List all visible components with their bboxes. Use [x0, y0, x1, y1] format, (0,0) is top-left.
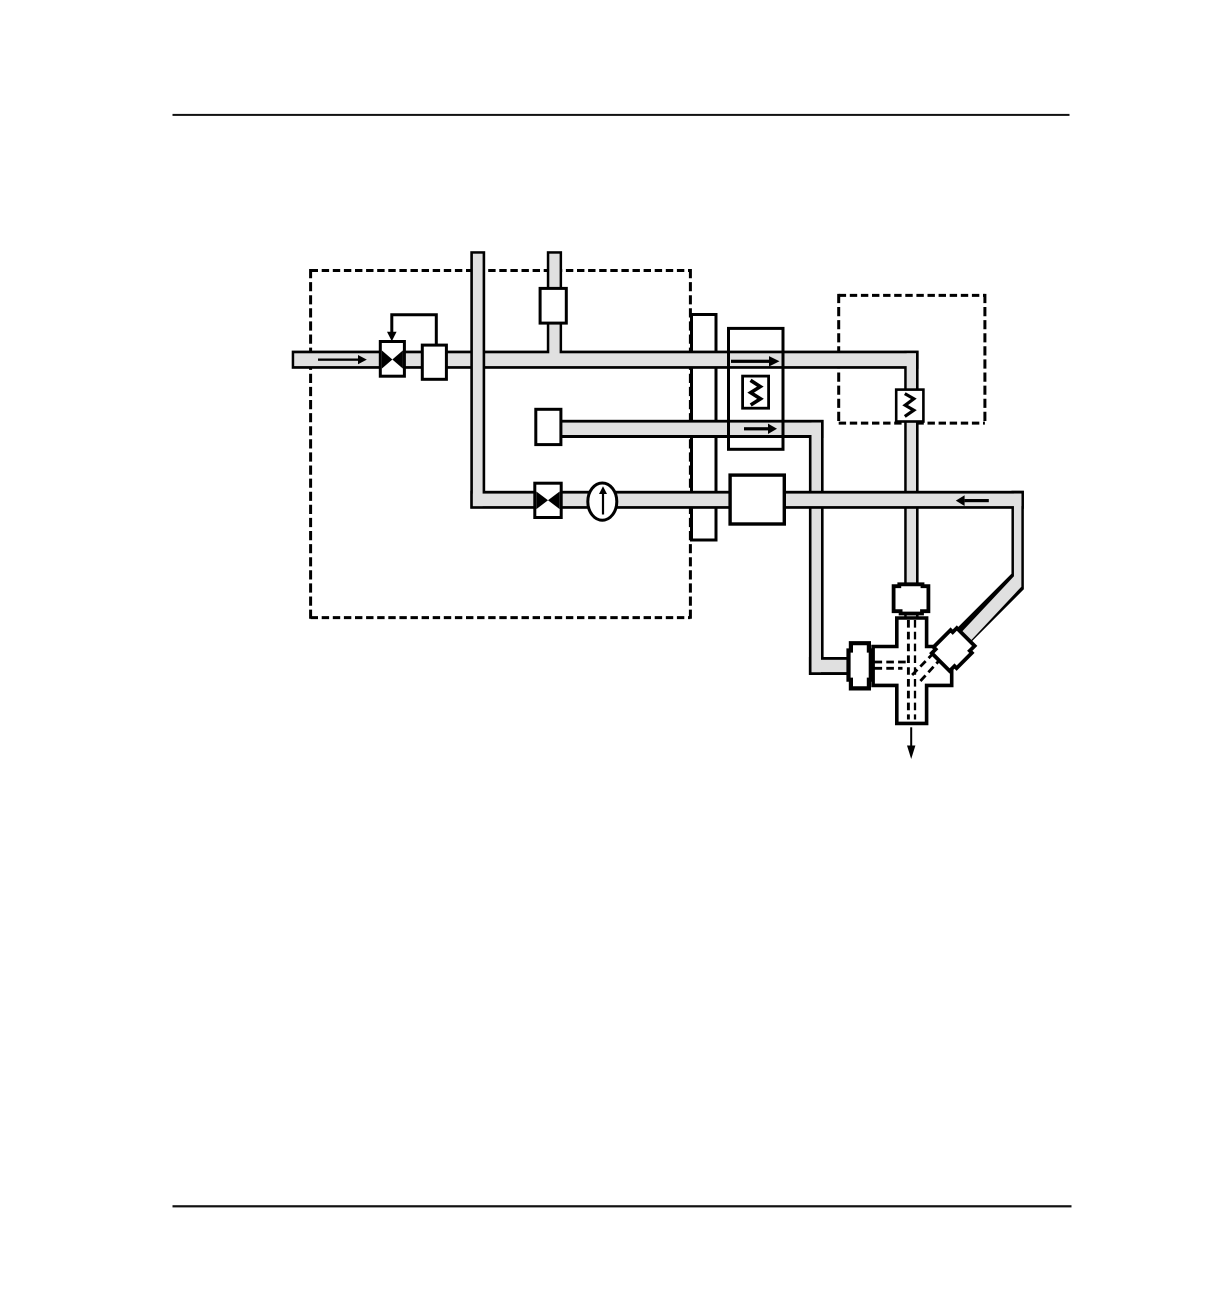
- internal flow path (vertical, dashed): [907, 620, 910, 720]
- dashed enclosure box (sampling system): [311, 269, 691, 272]
- pipe P3 outline (vertical riser + bottom return line + diagonal): [951, 491, 1023, 648]
- component box on pipe P3 (pump/filter): [730, 475, 784, 524]
- tall plate / oven wall: [692, 315, 717, 541]
- dashed enclosure box (heated zone): [839, 294, 985, 297]
- pipe P1 outline (sample inlet line, horizontal + right drop): [292, 351, 919, 369]
- regulator sensing element box: [422, 345, 446, 379]
- heater symbol H1 inside analyzer box: [743, 376, 769, 408]
- valve V1 bowtie: [382, 350, 393, 368]
- return flow arrow on pipe P3: [965, 499, 989, 502]
- inlet flow arrow on pipe P1: [318, 359, 358, 361]
- pipe P1 fill: [294, 353, 916, 366]
- cross valve body: [873, 618, 952, 723]
- internal flow path (horizontal, dashed): [875, 661, 909, 664]
- internal flow path (diagonal, dashed): [912, 645, 941, 675]
- pipe V2 fill: [549, 254, 559, 364]
- pipe P3 fill: [960, 494, 1021, 643]
- footer rule: [173, 1205, 1072, 1207]
- analyzer box outline: [729, 328, 784, 449]
- flow meter gauge: [588, 483, 617, 520]
- pipe P2 fill: [551, 423, 822, 435]
- control signal arrowhead: [387, 332, 397, 342]
- header rule: [173, 114, 1070, 116]
- pipe P2 outline (middle line with drop to cross valve): [548, 420, 824, 438]
- control signal line: [392, 315, 437, 345]
- heater symbol H2 on right drop pipe: [896, 390, 923, 422]
- gauge arrow: [602, 493, 604, 515]
- flow restrictor box on branch V2: [540, 288, 566, 323]
- shutoff valve V2 body: [535, 483, 561, 517]
- flow arrow inside analyzer box (pipe P2): [744, 427, 768, 430]
- union fitting (left port): [849, 643, 871, 688]
- component box at start of pipe P2: [536, 409, 561, 444]
- vent arrow below cross valve: [910, 727, 912, 745]
- flow arrow inside analyzer box (pipe P1): [731, 360, 769, 363]
- valve V2 bowtie: [536, 492, 548, 510]
- pressure regulator valve V1 body: [380, 342, 404, 377]
- pipe V2 outline (vertical branch to restrictor): [547, 251, 562, 362]
- union fitting (diagonal port): [930, 626, 977, 673]
- union fitting (top port): [894, 584, 929, 613]
